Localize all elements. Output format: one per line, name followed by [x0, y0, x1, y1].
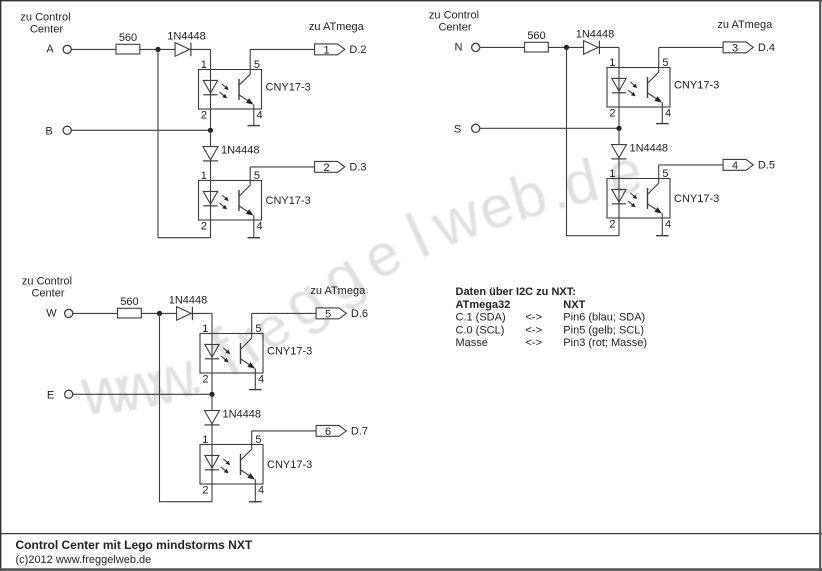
- svg-text:B: B: [45, 125, 52, 137]
- svg-text:2: 2: [202, 373, 208, 385]
- svg-text:Masse: Masse: [456, 337, 488, 349]
- svg-text:1N4448: 1N4448: [576, 28, 615, 40]
- svg-text:5: 5: [254, 170, 260, 182]
- svg-text:1N4448: 1N4448: [630, 143, 669, 155]
- svg-text:2: 2: [202, 484, 208, 496]
- svg-text:N: N: [455, 42, 463, 54]
- svg-text:1N4448: 1N4448: [167, 30, 206, 42]
- svg-text:4: 4: [258, 373, 264, 385]
- svg-text:5: 5: [662, 168, 668, 180]
- svg-text:zu Control: zu Control: [20, 11, 70, 23]
- svg-text:D.2: D.2: [349, 44, 366, 56]
- svg-text:5: 5: [662, 57, 668, 69]
- svg-text:6: 6: [325, 426, 331, 438]
- svg-text:Center: Center: [30, 24, 63, 36]
- svg-text:Pin3 (rot; Masse): Pin3 (rot; Masse): [563, 337, 647, 349]
- svg-text:<->: <->: [526, 324, 543, 336]
- svg-text:ATmega32: ATmega32: [456, 299, 511, 311]
- svg-text:2: 2: [201, 109, 207, 121]
- svg-text:4: 4: [257, 220, 263, 232]
- svg-text:CNY17-3: CNY17-3: [266, 81, 311, 93]
- svg-text:1N4448: 1N4448: [223, 409, 262, 421]
- svg-text:Pin5 (gelb; SCL): Pin5 (gelb; SCL): [563, 324, 644, 336]
- svg-text:5: 5: [254, 59, 260, 71]
- svg-text:CNY17-3: CNY17-3: [674, 79, 719, 91]
- svg-text:D.6: D.6: [351, 308, 368, 320]
- svg-text:C.1 (SDA): C.1 (SDA): [456, 312, 506, 324]
- svg-text:560: 560: [527, 30, 545, 42]
- svg-text:CNY17-3: CNY17-3: [267, 345, 312, 357]
- svg-text:Daten über I2C zu NXT:: Daten über I2C zu NXT:: [456, 286, 576, 298]
- svg-text:1: 1: [609, 57, 615, 69]
- svg-text:zu Control: zu Control: [429, 9, 479, 21]
- svg-text:2: 2: [201, 220, 207, 232]
- svg-text:1: 1: [201, 170, 207, 182]
- svg-text:E: E: [47, 389, 54, 401]
- svg-text:W: W: [46, 308, 57, 320]
- svg-text:2: 2: [609, 107, 615, 119]
- svg-text:zu ATmega: zu ATmega: [309, 21, 365, 33]
- svg-text:5: 5: [255, 323, 261, 335]
- svg-text:Center: Center: [438, 22, 471, 34]
- svg-text:1: 1: [609, 168, 615, 180]
- svg-text:5: 5: [325, 308, 331, 320]
- svg-text:Center: Center: [31, 288, 64, 300]
- svg-text:4: 4: [665, 218, 671, 230]
- svg-text:3: 3: [732, 42, 738, 54]
- svg-text:4: 4: [257, 109, 263, 121]
- svg-text:4: 4: [258, 484, 264, 496]
- svg-text:2: 2: [323, 162, 329, 174]
- svg-text:<->: <->: [526, 312, 543, 324]
- svg-text:D.7: D.7: [351, 426, 368, 438]
- svg-text:1: 1: [201, 59, 207, 71]
- svg-text:D.3: D.3: [349, 162, 366, 174]
- svg-text:<->: <->: [526, 337, 543, 349]
- svg-text:zu ATmega: zu ATmega: [310, 285, 366, 297]
- svg-text:4: 4: [665, 107, 671, 119]
- svg-text:C.0 (SCL): C.0 (SCL): [456, 324, 505, 336]
- svg-text:1: 1: [202, 434, 208, 446]
- svg-text:zu ATmega: zu ATmega: [717, 19, 773, 31]
- svg-text:S: S: [454, 123, 461, 135]
- svg-text:CNY17-3: CNY17-3: [674, 193, 719, 205]
- svg-text:D.5: D.5: [758, 160, 775, 172]
- svg-text:1N4448: 1N4448: [221, 145, 260, 157]
- svg-text:CNY17-3: CNY17-3: [266, 195, 311, 207]
- svg-text:560: 560: [119, 32, 137, 44]
- svg-text:Control Center mit Lego mindst: Control Center mit Lego mindstorms NXT: [16, 538, 253, 552]
- svg-text:5: 5: [255, 434, 261, 446]
- svg-text:2: 2: [609, 218, 615, 230]
- svg-text:1: 1: [202, 323, 208, 335]
- svg-text:NXT: NXT: [563, 299, 585, 311]
- svg-text:(c)2012 www.freggelweb.de: (c)2012 www.freggelweb.de: [16, 554, 152, 566]
- svg-text:1N4448: 1N4448: [169, 294, 208, 306]
- svg-text:560: 560: [120, 296, 138, 308]
- svg-text:Pin6 (blau; SDA): Pin6 (blau; SDA): [563, 312, 645, 324]
- svg-text:A: A: [46, 44, 54, 56]
- svg-text:CNY17-3: CNY17-3: [267, 459, 312, 471]
- svg-text:1: 1: [323, 44, 329, 56]
- svg-text:D.4: D.4: [758, 42, 775, 54]
- svg-text:4: 4: [732, 160, 738, 172]
- svg-text:zu Control: zu Control: [22, 275, 72, 287]
